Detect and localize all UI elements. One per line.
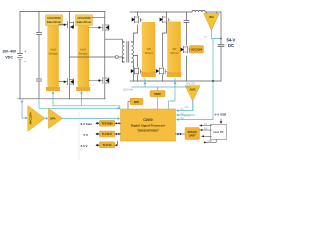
gate driver column 4 bottom label — [167, 72, 181, 77]
op-amp U7 triangle — [49, 109, 63, 129]
LDO box 3 — [99, 142, 115, 148]
svg-text:RX: RX — [204, 127, 208, 130]
svg-text:TLV1117: TLV1117 — [102, 132, 113, 136]
op-amp U5 AMC triangle — [186, 86, 201, 101]
wire: leg3 low to rail — [137, 75, 139, 81]
gate driver column 2 bottom label — [76, 87, 90, 91]
transistor Q8 low — [159, 68, 167, 75]
teal current sense input — [22, 99, 26, 118]
svg-text:TMS320F28027: TMS320F28027 — [137, 128, 159, 132]
wire: header2 to leg2 — [92, 17, 105, 19]
current sense amp U4 taps — [207, 12, 217, 14]
transistor Q3 high-side — [89, 24, 109, 31]
svg-text:54-V: 54-V — [227, 38, 236, 43]
svg-text:TLV713: TLV713 — [102, 143, 112, 147]
inductor L1 — [192, 10, 205, 12]
gate driver U1 header — [46, 15, 63, 26]
teal PWM bus left — [53, 92, 120, 109]
wire: amp output to DSP — [63, 118, 118, 120]
wire row3 — [202, 135, 212, 137]
op-amp U6 iso amp triangle — [28, 106, 45, 131]
wire: top-right bus rail + inductor wire — [130, 11, 221, 13]
transistor Q6 low — [134, 68, 142, 75]
svg-text:3.3 V: 3.3 V — [81, 144, 88, 148]
arrow into col2 — [80, 91, 83, 94]
wire: secondary stub to SR leg3 low — [133, 56, 137, 68]
svg-text:USB: USB — [207, 140, 212, 143]
svg-text:Digital Signal Processor: Digital Signal Processor — [131, 124, 166, 128]
wire: INA output down — [212, 30, 222, 39]
ADC box B2 — [130, 98, 143, 105]
svg-text:UCC5320: UCC5320 — [191, 48, 203, 52]
svg-text:V1: V1 — [181, 107, 185, 111]
arrow into col1 — [52, 91, 55, 94]
arrow into DSP — [118, 107, 121, 110]
svg-text:UCC21520: UCC21520 — [47, 16, 61, 20]
teal bus sense line — [39, 99, 119, 109]
capacitor C1 — [37, 33, 42, 35]
wire: top-left bus rail — [20, 11, 105, 13]
PWM box B1 — [156, 87, 158, 109]
wire arrow between amps — [45, 118, 46, 120]
node: series element circle — [115, 56, 118, 59]
gate driver U2 header — [76, 15, 93, 26]
isolation dashed line — [78, 112, 80, 160]
wire: SR leg 4 — [163, 12, 167, 81]
teal PWM bus right — [132, 78, 190, 87]
ISO box U9 — [176, 133, 186, 135]
wire: leg1 to transformer primary bottom — [70, 57, 123, 62]
arrow into host pc — [220, 119, 222, 122]
op-amp U4 INA triangle — [204, 14, 219, 31]
DSP right line 1 — [179, 101, 194, 111]
gate driver column 1 — [47, 26, 59, 92]
wire: bridge leg 1 — [69, 12, 71, 99]
gate drive box U3 — [190, 46, 204, 54]
svg-text:Driver: Driver — [170, 51, 179, 55]
svg-text:Host PC: Host PC — [213, 130, 223, 134]
wire: ADC box stub — [128, 102, 130, 110]
svg-text:AMC: AMC — [190, 88, 196, 92]
transformer T1 — [122, 42, 133, 63]
transistor Q4 low-side — [89, 77, 109, 84]
capacitor C2 — [37, 79, 42, 81]
DSP right line 2 — [179, 114, 195, 116]
wire: leg2 to transformer primary top — [105, 39, 123, 42]
svg-text:TPS7B69: TPS7B69 — [101, 122, 113, 126]
wire: output sense vertical — [212, 39, 214, 114]
wire: SR leg 3 — [137, 12, 139, 16]
svg-text:AMC1304: AMC1304 — [28, 112, 32, 125]
gate driver column 3 bottom label — [141, 72, 155, 77]
DSP right line 3 — [179, 113, 214, 120]
svg-text:5-V USB: 5-V USB — [215, 113, 228, 117]
wire: bus capacitor branch x39 — [38, 12, 40, 99]
wire: AMC output — [192, 101, 194, 111]
capacitor C3 — [184, 21, 189, 23]
wire: DSP top to right PWM bus — [169, 87, 175, 109]
transistor Q1 high-side — [59, 21, 74, 29]
svg-text:Gate Driver: Gate Driver — [47, 20, 62, 24]
svg-text:A2: A2 — [181, 111, 185, 115]
svg-text:UCC21520: UCC21520 — [77, 16, 91, 20]
svg-text:C2000: C2000 — [143, 118, 153, 122]
svg-text:Bridge: Bridge — [79, 52, 88, 56]
svg-text:TX: TX — [204, 123, 207, 126]
battery V1 100~400 VDC — [18, 54, 23, 60]
svg-text:9-V bias: 9-V bias — [81, 122, 93, 126]
wire USB loop — [205, 140, 216, 143]
wire: left input rail — [19, 12, 21, 99]
svg-text:XDS100: XDS100 — [188, 131, 198, 134]
svg-text:4:1: 4:1 — [185, 105, 189, 109]
svg-text:5 V: 5 V — [84, 133, 89, 137]
svg-text:ADC: ADC — [134, 100, 140, 104]
wire: transformer secondary top to leg3 — [133, 25, 137, 42]
capacitor C4 output — [218, 45, 224, 47]
transistor Q7 — [162, 16, 170, 23]
gate driver column 3 — [142, 22, 155, 77]
wire: bottom-left bus rail — [18, 98, 105, 100]
wire: output node — [220, 12, 222, 81]
wire: transformer secondary bottom down — [132, 62, 134, 81]
svg-text:DC: DC — [228, 43, 234, 48]
wire: bottom-right bus rail — [130, 80, 221, 82]
svg-text:OPA: OPA — [50, 117, 56, 121]
gate driver column 4 — [167, 22, 181, 78]
gate driver column 1 bottom label — [46, 87, 60, 91]
svg-text:PWM: PWM — [154, 92, 160, 96]
svg-text:UART: UART — [189, 134, 196, 137]
svg-text:Ao: Ao — [181, 116, 185, 120]
svg-text:Gate Driver: Gate Driver — [77, 20, 92, 24]
Host PC box — [211, 125, 227, 140]
node junction — [212, 80, 214, 82]
wire: clamp branch with cap and fet — [186, 12, 188, 81]
transistor Q9 — [183, 46, 191, 53]
svg-text:AMC1311: AMC1311 — [186, 83, 196, 86]
transistor Q2 low-side — [59, 78, 74, 86]
LDO box 2 — [99, 131, 115, 137]
LDO box 1 — [99, 120, 115, 126]
svg-text:100 kHz: 100 kHz — [123, 88, 134, 92]
svg-text:INA: INA — [209, 15, 214, 19]
wire: bridge leg 2 — [104, 12, 106, 99]
wire RX — [200, 129, 212, 131]
svg-text:100~400: 100~400 — [2, 49, 16, 54]
svg-text:VDC: VDC — [5, 55, 13, 60]
transistor Q5 — [134, 16, 142, 23]
svg-text:Driver: Driver — [145, 51, 154, 55]
gate driver column 2 — [78, 26, 90, 92]
svg-text:Bridge: Bridge — [49, 52, 58, 56]
C2000 DSP U8 — [121, 109, 176, 141]
wire TX — [200, 125, 212, 127]
